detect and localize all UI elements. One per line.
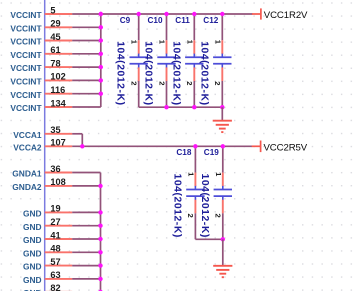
svg-text:2: 2 — [130, 81, 139, 85]
svg-text:C19: C19 — [204, 148, 219, 157]
C11 pin number 1 — [185, 40, 194, 45]
svg-text:VCCA1: VCCA1 — [13, 130, 42, 140]
svg-text:5: 5 — [50, 5, 55, 15]
ground — [213, 121, 232, 132]
C12 value 104(2012-K) — [198, 41, 209, 105]
junction — [98, 210, 102, 214]
pin VCCA2 (107) — [13, 138, 72, 153]
pin GND 27 — [23, 217, 72, 232]
C11 pin number 2 — [185, 81, 194, 85]
pin VCCINT 5 — [10, 5, 72, 20]
wire C12 top — [221, 14, 223, 40]
junction — [164, 105, 168, 109]
C9 value 104(2012-K) — [115, 41, 126, 105]
junction — [98, 277, 102, 281]
wire C19 bottom — [222, 213, 224, 239]
wire VCCINT vertical bus — [100, 14, 102, 107]
svg-text:104(2012-K): 104(2012-K) — [143, 41, 154, 105]
svg-text:108: 108 — [50, 177, 65, 187]
junction — [80, 144, 84, 148]
svg-text:116: 116 — [50, 85, 65, 95]
wire C18 top — [194, 146, 196, 172]
junction — [98, 224, 102, 228]
wire C9 top — [138, 14, 140, 40]
junction — [220, 12, 224, 16]
svg-text:104(2012-K): 104(2012-K) — [199, 174, 210, 238]
svg-text:27: 27 — [50, 217, 60, 227]
C18 pin number 1 — [186, 172, 195, 177]
svg-text:48: 48 — [50, 244, 60, 254]
svg-text:35: 35 — [50, 125, 60, 135]
C9 pin number 1 — [130, 40, 139, 45]
C19 pin number 1 — [214, 172, 223, 177]
svg-text:C11: C11 — [175, 16, 190, 25]
svg-text:GND: GND — [23, 248, 42, 258]
pin VCCINT 29 — [10, 19, 72, 34]
pin VCCINT 134 — [10, 98, 72, 113]
junction — [220, 105, 224, 109]
pin GND 57 — [23, 257, 72, 272]
junction — [99, 92, 103, 96]
ground — [213, 266, 232, 277]
junction — [99, 38, 103, 42]
C10 pin number 2 — [157, 81, 166, 85]
wire C11 top — [193, 14, 195, 40]
C19 value 104(2012-K) — [199, 174, 210, 238]
junction — [98, 184, 102, 188]
wire to ground 2 — [222, 239, 224, 265]
svg-text:VCCA2: VCCA2 — [13, 142, 42, 152]
wire C18 bottom — [194, 213, 196, 239]
svg-text:19: 19 — [50, 204, 60, 214]
svg-text:2: 2 — [157, 81, 166, 85]
capacitor C11 — [175, 16, 203, 81]
svg-text:2: 2 — [185, 81, 194, 85]
wire VCC2R5V rail — [72, 145, 252, 147]
svg-text:45: 45 — [50, 32, 60, 42]
svg-text:C18: C18 — [176, 148, 191, 157]
svg-text:41: 41 — [50, 230, 60, 240]
svg-text:2: 2 — [214, 214, 223, 218]
junction — [192, 12, 196, 16]
svg-text:61: 61 — [50, 45, 60, 55]
wire C19 top — [222, 146, 224, 172]
svg-text:29: 29 — [50, 19, 60, 29]
junction — [221, 237, 225, 241]
power port VCC1R2V — [252, 8, 308, 21]
wire C10 top — [166, 14, 168, 40]
junction — [137, 12, 141, 16]
pin GNDA1 (36) — [12, 164, 72, 179]
svg-text:GND: GND — [23, 235, 42, 245]
junction — [99, 78, 103, 82]
C19 pin number 2 — [214, 214, 223, 218]
svg-text:VCC1R2V: VCC1R2V — [264, 10, 308, 21]
svg-text:104(2012-K): 104(2012-K) — [198, 41, 209, 105]
C9 pin number 2 — [130, 81, 139, 85]
wire GNDA stubs — [72, 173, 100, 291]
svg-text:VCCINT: VCCINT — [10, 37, 42, 47]
pin VCCINT 102 — [10, 72, 72, 87]
svg-text:104(2012-K): 104(2012-K) — [171, 174, 182, 238]
svg-text:VCCINT: VCCINT — [10, 63, 42, 73]
C12 pin number 2 — [213, 81, 222, 85]
svg-text:GND: GND — [23, 222, 42, 232]
svg-text:VCCINT: VCCINT — [10, 50, 42, 60]
svg-text:GND: GND — [23, 262, 42, 272]
svg-text:GND: GND — [23, 209, 42, 219]
wire VCC1R2V rail — [101, 13, 253, 15]
junction — [98, 237, 102, 241]
capacitor C10 — [148, 16, 176, 81]
svg-text:134: 134 — [50, 98, 66, 108]
svg-text:VCC2R5V: VCC2R5V — [264, 143, 308, 154]
svg-text:2: 2 — [213, 81, 222, 85]
pin GND 48 — [23, 244, 72, 259]
svg-text:GNDA1: GNDA1 — [12, 169, 42, 179]
svg-text:VCCINT: VCCINT — [10, 90, 42, 100]
svg-text:104(2012-K): 104(2012-K) — [170, 41, 181, 105]
pin GNDA2 (108) — [12, 177, 72, 192]
wire VCCA1 to VCCA2 — [72, 134, 82, 147]
junction — [98, 250, 102, 254]
capacitor C18 — [176, 148, 204, 213]
junction — [193, 144, 197, 148]
pin VCCINT 61 — [10, 45, 72, 60]
C10 value 104(2012-K) — [143, 41, 154, 105]
C11 value 104(2012-K) — [170, 41, 181, 105]
svg-text:VCCINT: VCCINT — [10, 77, 42, 87]
wire C10 bottom — [166, 81, 168, 107]
pin VCCINT 116 — [10, 85, 72, 100]
svg-text:102: 102 — [50, 72, 65, 82]
pin VCCINT 78 — [10, 58, 72, 73]
junction — [99, 12, 103, 16]
C12 pin number 1 — [213, 40, 222, 45]
wire VCCINT pin stubs to bus — [72, 14, 101, 107]
C18 value 104(2012-K) — [171, 174, 182, 238]
svg-text:57: 57 — [50, 257, 60, 267]
svg-text:36: 36 — [50, 164, 60, 174]
junction — [99, 52, 103, 56]
wire C12 bottom — [221, 81, 223, 107]
pin GND 82 — [23, 283, 72, 291]
junction — [98, 263, 102, 267]
junction — [164, 12, 168, 16]
pin GND 41 — [23, 230, 72, 245]
capacitor C12 — [203, 16, 231, 81]
C18 pin number 2 — [186, 214, 195, 218]
svg-text:C12: C12 — [203, 16, 218, 25]
svg-text:2: 2 — [186, 214, 195, 218]
svg-text:63: 63 — [50, 270, 60, 280]
wire cap bank 1 ground rail — [139, 106, 223, 108]
svg-text:C9: C9 — [120, 16, 131, 25]
svg-text:VCCINT: VCCINT — [10, 10, 42, 20]
wire cap bank 2 ground rail — [195, 238, 222, 240]
power port VCC2R5V — [252, 141, 308, 154]
svg-text:78: 78 — [50, 58, 60, 68]
junction — [99, 65, 103, 69]
svg-text:82: 82 — [50, 283, 60, 291]
svg-text:C10: C10 — [148, 16, 163, 25]
svg-text:VCCINT: VCCINT — [10, 23, 42, 33]
svg-text:GND: GND — [23, 275, 42, 285]
junction — [99, 25, 103, 29]
part body edge — [44, 0, 46, 291]
svg-text:GNDA2: GNDA2 — [12, 182, 42, 192]
wire GND vertical bus — [100, 173, 102, 291]
C10 pin number 1 — [158, 40, 167, 45]
svg-text:VCCINT: VCCINT — [10, 103, 42, 113]
pin GND 19 — [23, 204, 72, 219]
wire C11 bottom — [193, 81, 195, 107]
svg-text:107: 107 — [50, 138, 65, 148]
junction — [221, 144, 225, 148]
junction — [192, 105, 196, 109]
junction — [99, 12, 103, 16]
junction — [98, 290, 102, 291]
pin VCCA1 (35) — [13, 125, 72, 140]
pin GND 63 — [23, 270, 72, 285]
svg-text:104(2012-K): 104(2012-K) — [115, 41, 126, 105]
capacitor C19 — [204, 148, 232, 213]
pin VCCINT 45 — [10, 32, 72, 47]
wire C9 bottom — [138, 81, 140, 107]
wire to ground 1 — [221, 107, 223, 120]
capacitor C9 — [120, 16, 148, 81]
